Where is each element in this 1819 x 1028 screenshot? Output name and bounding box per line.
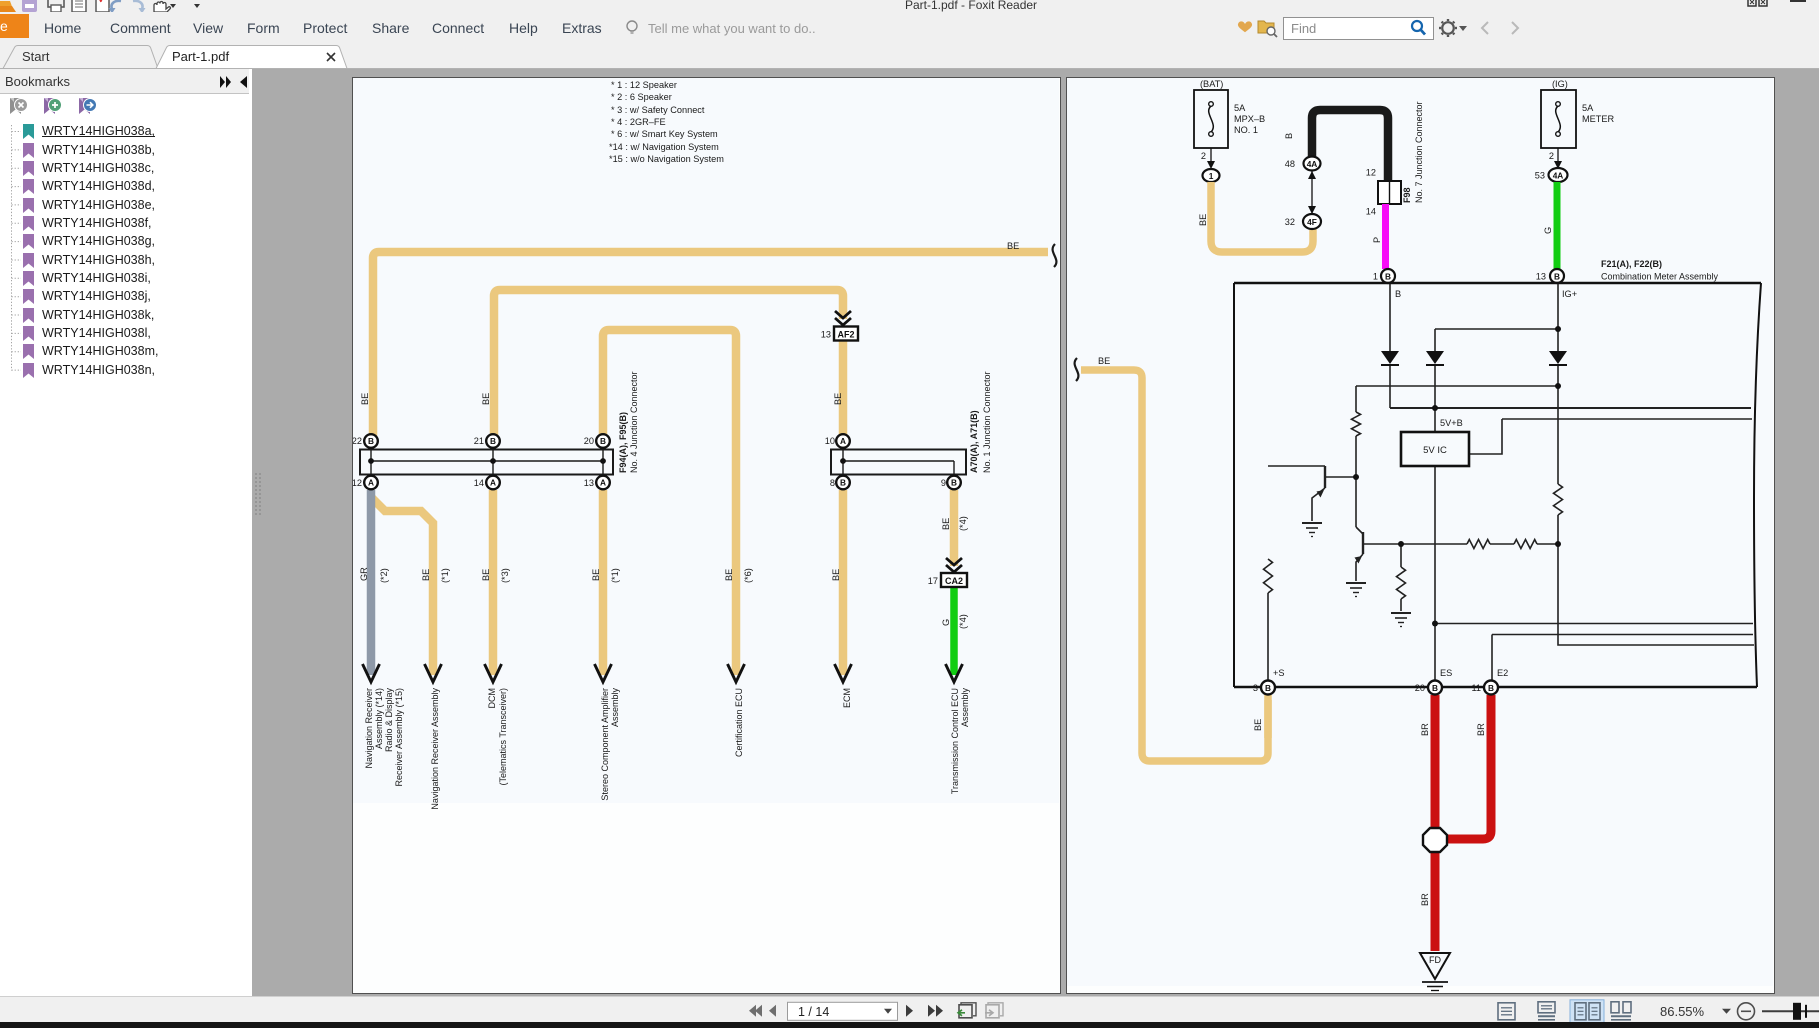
svg-text:AF2: AF2 bbox=[837, 330, 854, 340]
svg-text:1: 1 bbox=[1209, 171, 1214, 181]
svg-text:BE: BE bbox=[724, 569, 734, 581]
svg-text:14: 14 bbox=[474, 478, 484, 488]
svg-text:B: B bbox=[368, 436, 374, 446]
svg-text:* 2 : 6 Speaker: * 2 : 6 Speaker bbox=[611, 92, 672, 102]
svg-text:(Telematics Transceiver): (Telematics Transceiver) bbox=[498, 688, 508, 786]
svg-text:F21(A), F22(B): F21(A), F22(B) bbox=[1601, 259, 1662, 269]
svg-text:9: 9 bbox=[941, 478, 946, 488]
svg-text:17: 17 bbox=[928, 576, 938, 586]
svg-text:48: 48 bbox=[1285, 159, 1295, 169]
svg-text:No. 4 Junction Connector: No. 4 Junction Connector bbox=[629, 371, 639, 473]
svg-text:B: B bbox=[600, 436, 606, 446]
svg-text:BE: BE bbox=[1198, 214, 1208, 226]
svg-text:21: 21 bbox=[474, 436, 484, 446]
svg-text:Certification ECU: Certification ECU bbox=[734, 688, 744, 757]
svg-text:(*4): (*4) bbox=[958, 516, 968, 531]
svg-text:Find: Find bbox=[1291, 21, 1316, 36]
svg-text:+S: +S bbox=[1273, 668, 1285, 678]
svg-text:(*4): (*4) bbox=[958, 614, 968, 629]
svg-text:DCM: DCM bbox=[487, 688, 497, 709]
svg-text:* 6 : w/ Smart Key System: * 6 : w/ Smart Key System bbox=[611, 129, 718, 139]
svg-text:Stereo Component Amplifier: Stereo Component Amplifier bbox=[600, 688, 610, 801]
svg-text:* 1 : 12 Speaker: * 1 : 12 Speaker bbox=[611, 80, 677, 90]
svg-text:12: 12 bbox=[353, 478, 362, 488]
svg-text:(*6): (*6) bbox=[743, 568, 753, 583]
svg-text:5V+B: 5V+B bbox=[1440, 418, 1463, 428]
svg-text:53: 53 bbox=[1535, 171, 1545, 181]
svg-text:13: 13 bbox=[584, 478, 594, 488]
svg-text:No. 1 Junction Connector: No. 1 Junction Connector bbox=[982, 371, 992, 473]
svg-text:20: 20 bbox=[1415, 683, 1425, 693]
svg-text:Assembly: Assembly bbox=[960, 688, 970, 728]
svg-text:(BAT): (BAT) bbox=[1200, 79, 1223, 89]
svg-text:GR: GR bbox=[359, 567, 369, 581]
svg-text:(*2): (*2) bbox=[379, 568, 389, 583]
svg-text:B: B bbox=[951, 478, 957, 488]
svg-text:ES: ES bbox=[1440, 668, 1452, 678]
svg-text:BE: BE bbox=[833, 393, 843, 405]
svg-text:P: P bbox=[1372, 237, 1382, 243]
svg-text:32: 32 bbox=[1285, 217, 1295, 227]
svg-text:B: B bbox=[490, 436, 496, 446]
svg-text:Transmission Control ECU: Transmission Control ECU bbox=[950, 688, 960, 794]
svg-text:Navigation Receiver: Navigation Receiver bbox=[364, 688, 374, 769]
svg-text:BR: BR bbox=[1420, 893, 1430, 906]
svg-text:Start: Start bbox=[22, 49, 50, 64]
svg-text:BR: BR bbox=[1476, 723, 1486, 736]
svg-text:G: G bbox=[941, 619, 951, 626]
svg-text:IG+: IG+ bbox=[1562, 289, 1577, 299]
svg-text:A: A bbox=[840, 436, 846, 446]
svg-text:2: 2 bbox=[1549, 151, 1554, 161]
svg-text:13: 13 bbox=[1536, 272, 1546, 282]
svg-text:CA2: CA2 bbox=[945, 576, 963, 586]
svg-text:(*1): (*1) bbox=[610, 568, 620, 583]
svg-text:B: B bbox=[1488, 683, 1494, 693]
svg-text:4A: 4A bbox=[1553, 171, 1564, 181]
svg-text:FD: FD bbox=[1429, 955, 1441, 965]
svg-text:(*3): (*3) bbox=[500, 568, 510, 583]
svg-text:1: 1 bbox=[1373, 272, 1378, 282]
svg-text:BE: BE bbox=[941, 518, 951, 530]
svg-text:BE: BE bbox=[481, 393, 491, 405]
svg-text:5V IC: 5V IC bbox=[1423, 445, 1447, 456]
svg-text:3: 3 bbox=[1253, 683, 1258, 693]
svg-text:B: B bbox=[1395, 289, 1401, 299]
svg-text:Assembly (*14): Assembly (*14) bbox=[374, 688, 384, 749]
svg-text:B: B bbox=[840, 478, 846, 488]
svg-text:22: 22 bbox=[353, 436, 362, 446]
svg-text:Part-1.pdf - Foxit Reader: Part-1.pdf - Foxit Reader bbox=[905, 0, 1037, 12]
svg-text:A: A bbox=[600, 478, 606, 488]
svg-text:F98: F98 bbox=[1402, 187, 1412, 203]
svg-text:Receiver Assembly (*15): Receiver Assembly (*15) bbox=[394, 688, 404, 787]
svg-text:MPX–B: MPX–B bbox=[1234, 114, 1265, 124]
svg-text:B: B bbox=[1432, 683, 1438, 693]
svg-text:Assembly: Assembly bbox=[610, 688, 620, 728]
svg-text:Navigation Receiver Assembly: Navigation Receiver Assembly bbox=[430, 688, 440, 810]
svg-text:10: 10 bbox=[825, 436, 835, 446]
svg-text:8: 8 bbox=[830, 478, 835, 488]
svg-text:No. 7 Junction Connector: No. 7 Junction Connector bbox=[1414, 101, 1424, 203]
svg-text:13: 13 bbox=[821, 330, 831, 340]
svg-text:5A: 5A bbox=[1582, 103, 1594, 113]
svg-text:B: B bbox=[1284, 133, 1294, 139]
svg-text:Combination Meter Assembly: Combination Meter Assembly bbox=[1601, 272, 1719, 282]
svg-text:BE: BE bbox=[1098, 356, 1110, 366]
svg-text:METER: METER bbox=[1582, 114, 1615, 124]
svg-text:* 3 : w/ Safety Connect: * 3 : w/ Safety Connect bbox=[611, 105, 705, 115]
svg-text:BE: BE bbox=[1253, 719, 1263, 731]
svg-text:F94(A), F95(B): F94(A), F95(B) bbox=[618, 412, 628, 473]
svg-text:A70(A), A71(B): A70(A), A71(B) bbox=[969, 410, 979, 473]
svg-text:NO. 1: NO. 1 bbox=[1234, 125, 1258, 135]
svg-text:14: 14 bbox=[1366, 207, 1376, 217]
svg-text:ECM: ECM bbox=[842, 688, 852, 708]
svg-text:B: B bbox=[1265, 683, 1271, 693]
svg-text:BE: BE bbox=[1007, 241, 1019, 251]
svg-text:4A: 4A bbox=[1307, 159, 1318, 169]
svg-text:BR: BR bbox=[1420, 723, 1430, 736]
svg-text:86.55%: 86.55% bbox=[1660, 1004, 1705, 1019]
svg-text:BE: BE bbox=[591, 569, 601, 581]
svg-text:A: A bbox=[368, 478, 374, 488]
svg-text:1 / 14: 1 / 14 bbox=[798, 1005, 829, 1019]
svg-text:B: B bbox=[1554, 272, 1560, 282]
svg-text:E2: E2 bbox=[1497, 668, 1508, 678]
svg-text:*14 : w/ Navigation System: *14 : w/ Navigation System bbox=[609, 142, 719, 152]
svg-text:G: G bbox=[1543, 227, 1553, 234]
svg-text:4F: 4F bbox=[1307, 217, 1317, 227]
svg-text:5A: 5A bbox=[1234, 103, 1246, 113]
svg-text:12: 12 bbox=[1366, 168, 1376, 178]
svg-text:(IG): (IG) bbox=[1552, 79, 1568, 89]
svg-text:Part-1.pdf: Part-1.pdf bbox=[172, 49, 229, 64]
svg-text:B: B bbox=[1385, 272, 1391, 282]
svg-text:*15 : w/o Navigation System: *15 : w/o Navigation System bbox=[609, 154, 724, 164]
svg-text:BE: BE bbox=[481, 569, 491, 581]
svg-text:Radio & Display: Radio & Display bbox=[384, 688, 394, 753]
svg-text:BE: BE bbox=[360, 393, 370, 405]
svg-text:20: 20 bbox=[584, 436, 594, 446]
svg-text:A: A bbox=[490, 478, 496, 488]
svg-text:11: 11 bbox=[1471, 683, 1481, 693]
svg-text:BE: BE bbox=[831, 569, 841, 581]
svg-text:(*1): (*1) bbox=[440, 568, 450, 583]
svg-text:* 4 : 2GR–FE: * 4 : 2GR–FE bbox=[611, 117, 666, 127]
svg-text:BE: BE bbox=[421, 569, 431, 581]
svg-text:2: 2 bbox=[1201, 151, 1206, 161]
